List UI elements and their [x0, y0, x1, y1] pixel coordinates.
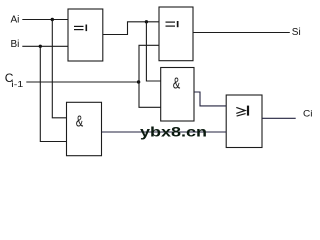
wire Ai input — [22, 19, 68, 21]
svg-text:Bi: Bi — [11, 39, 20, 50]
wire OR U5 output to Ci — [262, 117, 296, 119]
node dot on Ai wire — [51, 18, 54, 21]
wire Ci-1 input — [26, 81, 138, 83]
xor gate U1 label =1 — [74, 25, 87, 32]
wire AND U3 output to OR U5 input 1 — [194, 92, 226, 106]
svg-text:Ai: Ai — [11, 14, 20, 25]
svg-text:Si: Si — [292, 27, 301, 38]
wire XOR U1 output to XOR U2 input 1 — [103, 22, 159, 35]
wire XOR U1 output branch down to AND U3 input 1 — [146, 22, 160, 81]
node dot on Bi wire — [39, 45, 42, 48]
svg-text:Ci: Ci — [303, 108, 313, 119]
xor gate U2 (=1) box — [159, 7, 193, 61]
xor gate U1 (=1) box — [68, 9, 103, 61]
or gate U5 (>=1) box — [226, 95, 262, 148]
and gate U3 (&) box — [161, 68, 194, 122]
svg-text:i-1: i-1 — [11, 79, 23, 89]
wire AND U4 output to OR U5 input 2 — [102, 131, 227, 133]
wire Ci-1 branch down to AND U3 input 2 — [139, 82, 161, 107]
or gate U5 label >=1 — [236, 107, 245, 116]
and gate U4 (&) box — [67, 102, 102, 155]
wire Ci-1 branch up to XOR U2 input 2 — [139, 45, 159, 82]
node dot on XOR U1 output branch — [145, 20, 148, 23]
wire XOR U2 output to Si — [193, 32, 290, 34]
wire Ai branch down to AND U4 input 1 — [52, 20, 66, 118]
svg-text:&: & — [76, 112, 84, 131]
node dot on Ci-1 wire — [137, 80, 140, 83]
svg-text:ybx8.cn: ybx8.cn — [140, 124, 207, 140]
wire Bi input — [22, 45, 68, 47]
svg-text:&: & — [173, 74, 181, 93]
wire Bi branch down to AND U4 input 2 — [40, 46, 66, 141]
xor gate U2 label =1 — [166, 21, 179, 27]
